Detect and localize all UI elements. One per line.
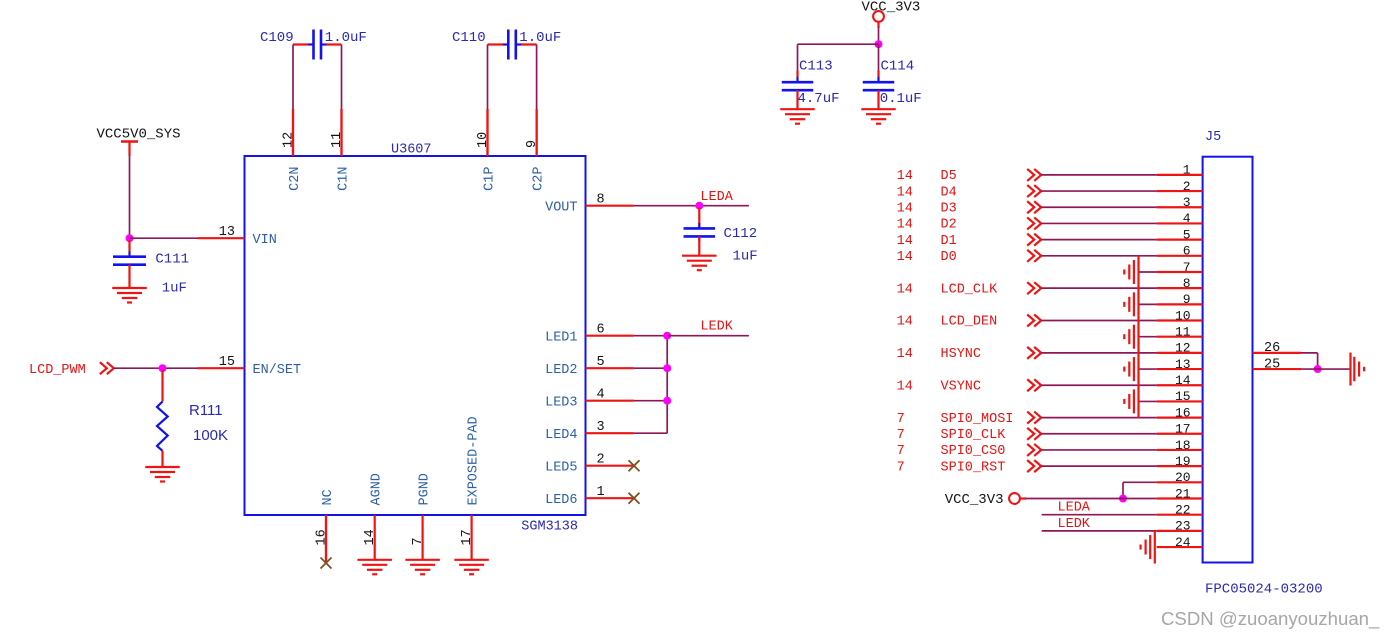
svg-text:14: 14 (897, 201, 913, 216)
svg-text:2: 2 (1183, 179, 1191, 194)
svg-text:VCC_3V3: VCC_3V3 (945, 492, 1004, 508)
svg-text:6: 6 (597, 323, 605, 338)
svg-text:20: 20 (1175, 470, 1191, 485)
svg-text:C1N: C1N (336, 167, 351, 191)
svg-text:LEDK: LEDK (700, 320, 733, 335)
svg-text:VCC_3V3: VCC_3V3 (862, 0, 921, 16)
svg-text:7: 7 (897, 412, 905, 427)
svg-text:C112: C112 (724, 226, 758, 242)
svg-text:8: 8 (1183, 276, 1191, 291)
svg-text:C2N: C2N (288, 167, 303, 191)
svg-text:21: 21 (1175, 486, 1191, 501)
svg-text:7: 7 (897, 444, 905, 459)
svg-text:14: 14 (897, 347, 913, 362)
svg-text:4: 4 (597, 388, 605, 403)
svg-text:FPC05024-03200: FPC05024-03200 (1205, 581, 1323, 597)
svg-text:14: 14 (897, 282, 913, 297)
svg-text:100K: 100K (193, 427, 228, 444)
svg-text:C109: C109 (260, 30, 294, 46)
svg-text:LED4: LED4 (545, 428, 577, 443)
svg-text:14: 14 (1175, 373, 1191, 388)
svg-text:23: 23 (1175, 519, 1191, 534)
svg-text:18: 18 (1175, 438, 1191, 453)
svg-text:D3: D3 (941, 201, 957, 216)
svg-text:LCD_PWM: LCD_PWM (29, 363, 86, 378)
svg-text:0.1uF: 0.1uF (880, 91, 922, 107)
svg-text:HSYNC: HSYNC (941, 347, 982, 362)
svg-text:14: 14 (897, 169, 913, 184)
svg-text:1: 1 (1183, 163, 1191, 178)
svg-text:C114: C114 (881, 58, 915, 74)
svg-text:LED3: LED3 (545, 395, 577, 410)
svg-text:8: 8 (597, 193, 605, 208)
svg-text:15: 15 (1175, 389, 1191, 404)
svg-text:LED6: LED6 (545, 493, 577, 508)
svg-text:LEDA: LEDA (1058, 501, 1091, 516)
svg-text:16: 16 (315, 529, 330, 545)
svg-text:7: 7 (897, 428, 905, 443)
svg-text:D2: D2 (941, 218, 957, 233)
svg-text:26: 26 (1264, 341, 1280, 356)
svg-text:4: 4 (1183, 211, 1191, 226)
svg-text:14: 14 (897, 379, 913, 394)
svg-text:7: 7 (1183, 260, 1191, 275)
svg-text:19: 19 (1175, 454, 1191, 469)
svg-text:14: 14 (363, 529, 378, 545)
svg-text:LED2: LED2 (545, 363, 577, 378)
svg-text:10: 10 (476, 132, 491, 148)
svg-text:C110: C110 (452, 30, 486, 46)
svg-text:LEDA: LEDA (700, 190, 733, 205)
svg-text:7: 7 (897, 460, 905, 475)
svg-text:U3607: U3607 (391, 143, 432, 158)
svg-text:13: 13 (1175, 357, 1191, 372)
svg-text:14: 14 (897, 234, 913, 249)
svg-text:LCD_DEN: LCD_DEN (941, 315, 998, 330)
svg-text:17: 17 (1175, 422, 1191, 437)
svg-text:2: 2 (597, 453, 605, 468)
svg-text:1.0uF: 1.0uF (519, 30, 561, 46)
svg-text:9: 9 (1183, 292, 1191, 307)
svg-text:6: 6 (1183, 244, 1191, 259)
svg-text:VIN: VIN (253, 233, 277, 248)
svg-text:EN/SET: EN/SET (253, 363, 302, 378)
svg-text:SPI0_MOSI: SPI0_MOSI (941, 412, 1014, 427)
svg-text:1uF: 1uF (733, 249, 758, 265)
svg-text:C2P: C2P (532, 167, 547, 191)
svg-text:D5: D5 (941, 169, 957, 184)
svg-text:VSYNC: VSYNC (941, 379, 982, 394)
svg-text:17: 17 (460, 529, 475, 545)
svg-text:14: 14 (897, 185, 913, 200)
svg-text:11: 11 (1175, 325, 1191, 340)
svg-text:NC: NC (321, 489, 336, 505)
svg-text:AGND: AGND (370, 473, 385, 505)
svg-text:1: 1 (597, 485, 605, 500)
svg-text:5: 5 (597, 355, 605, 370)
svg-text:1uF: 1uF (162, 281, 187, 297)
svg-text:PGND: PGND (418, 473, 433, 505)
svg-text:3: 3 (1183, 195, 1191, 210)
svg-text:10: 10 (1175, 308, 1191, 323)
svg-text:CSDN @zuoanyouzhuan_: CSDN @zuoanyouzhuan_ (1161, 608, 1380, 630)
svg-text:14: 14 (897, 218, 913, 233)
svg-text:12: 12 (282, 132, 297, 148)
svg-text:16: 16 (1175, 405, 1191, 420)
svg-text:SPI0_RST: SPI0_RST (941, 460, 1006, 475)
svg-text:14: 14 (897, 250, 913, 265)
svg-text:SGM3138: SGM3138 (521, 520, 578, 535)
svg-text:D0: D0 (941, 250, 957, 265)
svg-text:5: 5 (1183, 227, 1191, 242)
svg-text:LED1: LED1 (545, 330, 577, 345)
svg-text:VOUT: VOUT (545, 200, 577, 215)
svg-text:7: 7 (411, 537, 426, 545)
svg-text:C1P: C1P (482, 167, 497, 191)
svg-text:R111: R111 (189, 402, 223, 419)
svg-text:D1: D1 (941, 234, 957, 249)
svg-text:11: 11 (330, 132, 345, 148)
svg-text:24: 24 (1175, 535, 1191, 550)
svg-text:SPI0_CLK: SPI0_CLK (941, 428, 1007, 443)
svg-text:D4: D4 (941, 185, 957, 200)
svg-text:EXPOSED-PAD: EXPOSED-PAD (467, 416, 482, 505)
svg-text:J5: J5 (1205, 130, 1221, 145)
svg-text:1.0uF: 1.0uF (325, 30, 367, 46)
svg-text:22: 22 (1175, 502, 1191, 517)
svg-text:SPI0_CS0: SPI0_CS0 (941, 444, 1006, 459)
svg-text:4.7uF: 4.7uF (798, 91, 840, 107)
svg-text:C113: C113 (799, 58, 833, 74)
svg-text:LED5: LED5 (545, 460, 577, 475)
svg-text:C111: C111 (155, 251, 189, 267)
svg-text:LCD_CLK: LCD_CLK (941, 282, 999, 297)
svg-text:3: 3 (597, 420, 605, 435)
svg-text:LEDK: LEDK (1058, 517, 1091, 532)
svg-text:14: 14 (897, 315, 913, 330)
svg-text:15: 15 (219, 355, 235, 370)
svg-text:9: 9 (525, 140, 540, 148)
svg-text:VCC5V0_SYS: VCC5V0_SYS (97, 127, 181, 143)
svg-text:13: 13 (219, 225, 235, 240)
svg-text:25: 25 (1264, 357, 1280, 372)
svg-text:12: 12 (1175, 341, 1191, 356)
